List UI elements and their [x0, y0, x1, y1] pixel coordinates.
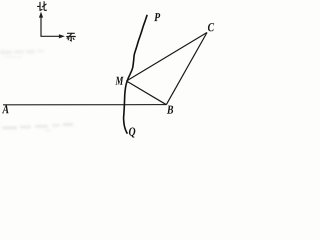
node label B — [167, 106, 173, 114]
wire: horizontal line A to B — [3, 104, 166, 106]
wire: line B to C — [166, 33, 207, 105]
node label C — [208, 23, 214, 31]
compass north arrow shaft — [40, 16, 42, 37]
label 东 (east), drawn strokes — [67, 33, 76, 41]
curve arc P to Q through M — [124, 15, 148, 134]
node label Q — [129, 128, 135, 138]
wire: line M to B — [126, 81, 166, 105]
wire: line M to C — [126, 33, 207, 82]
compass north arrowhead — [39, 12, 43, 18]
label 北 (north), drawn strokes — [38, 2, 47, 11]
compass east arrowhead — [59, 34, 65, 38]
faint scan smudges bottom-left — [2, 123, 73, 131]
node label A — [2, 105, 9, 113]
node label M — [115, 77, 123, 85]
faint scan mark left edge — [0, 50, 44, 59]
compass east arrow shaft — [41, 35, 60, 37]
node label P — [154, 13, 160, 21]
